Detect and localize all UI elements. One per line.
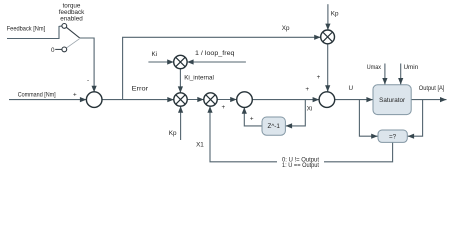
wire Umax stub: [384, 64, 386, 85]
wire Kp stub top: [327, 4, 329, 30]
comparator block =?: [378, 130, 407, 142]
switch lever: [66, 27, 80, 38]
wire Feedback input: [7, 26, 62, 39]
switch throw circle bottom: [62, 47, 67, 52]
svg-text:enabled: enabled: [60, 15, 83, 22]
svg-text:+: +: [73, 91, 77, 98]
wire Ki_internal: [179, 69, 181, 93]
summer S3 (Xi + Kp Xp): [319, 92, 335, 108]
wire Command input: [9, 99, 86, 101]
svg-text:U: U: [349, 85, 354, 92]
wire Xp branch: [123, 37, 321, 99]
wire switch pole to summer: [80, 38, 94, 92]
svg-text:0: 0: [51, 47, 55, 54]
label torque feedback enabled: [59, 2, 85, 22]
wire U to saturator: [335, 99, 373, 101]
svg-text:+: +: [317, 74, 321, 81]
svg-text:1: U == Output: 1: U == Output: [282, 162, 319, 169]
delay block Z^-1: [262, 117, 285, 135]
switch throw circle top: [62, 24, 67, 29]
multiplier M2 (error x ki_internal x kp): [174, 93, 187, 106]
multiplier M2 cross: [176, 95, 185, 104]
wire comparator output to X1: [324, 142, 393, 161]
svg-text:1 / loop_freq: 1 / loop_freq: [195, 50, 235, 57]
svg-text:+: +: [305, 86, 309, 93]
wire multiplier1 to multiplier2: [187, 99, 204, 101]
svg-text:Kp: Kp: [331, 10, 339, 17]
svg-text:Z^-1: Z^-1: [267, 123, 280, 130]
svg-text:+: +: [250, 116, 254, 123]
wire multiplier2 to summer2: [217, 99, 237, 101]
wire Error: [102, 99, 174, 101]
svg-text:Command [Nm]: Command [Nm]: [18, 92, 56, 99]
svg-text:Output [A]: Output [A]: [419, 85, 445, 92]
wire Xi to summer3: [252, 99, 319, 101]
saturator block: [373, 85, 411, 115]
wire zero stub: [55, 48, 62, 50]
wire 1/loop_freq stub: [187, 61, 246, 63]
multiplier M1 (Ki x loop_freq): [174, 55, 187, 68]
wire Xi down to delay: [286, 100, 306, 126]
svg-text:Ki: Ki: [152, 51, 158, 58]
svg-text:-: -: [87, 77, 89, 84]
svg-text:Kp: Kp: [169, 130, 177, 137]
wire Output down to comparator: [408, 100, 423, 137]
svg-text:Feedback [Nm]: Feedback [Nm]: [7, 25, 46, 32]
wire Kp stub bottom: [180, 106, 182, 140]
multiplier M4 cross: [323, 32, 333, 42]
multiplier M3 cross: [206, 95, 215, 104]
multiplier M1 cross: [176, 57, 185, 66]
svg-text:Umin: Umin: [404, 64, 419, 71]
svg-text:Ki_internal: Ki_internal: [184, 75, 214, 82]
svg-text:Umax: Umax: [367, 64, 382, 71]
wire Umin stub: [400, 64, 402, 85]
svg-text:X1: X1: [196, 142, 204, 149]
summer S2 (integrator): [237, 92, 253, 108]
wire U down to comparator: [359, 100, 377, 137]
multiplier M4 (Xp x Kp): [321, 30, 335, 44]
wire multiplier3 to summer3: [327, 44, 329, 92]
svg-text:Xp: Xp: [282, 25, 290, 32]
switch inactive throw: [66, 39, 79, 48]
svg-text:=?: =?: [389, 133, 397, 140]
svg-text:Xi: Xi: [307, 105, 313, 112]
summer S1 (command - feedback): [86, 92, 102, 108]
svg-text:Error: Error: [132, 85, 149, 92]
multiplier M3 (x X1): [204, 93, 217, 106]
wire Ki stub: [148, 61, 173, 63]
wire Output: [411, 99, 446, 101]
wire X1 up into multiplier2: [210, 106, 277, 162]
svg-text:Saturator: Saturator: [379, 97, 405, 104]
wire delay out to summer2: [244, 107, 262, 126]
svg-text:+: +: [221, 104, 225, 111]
